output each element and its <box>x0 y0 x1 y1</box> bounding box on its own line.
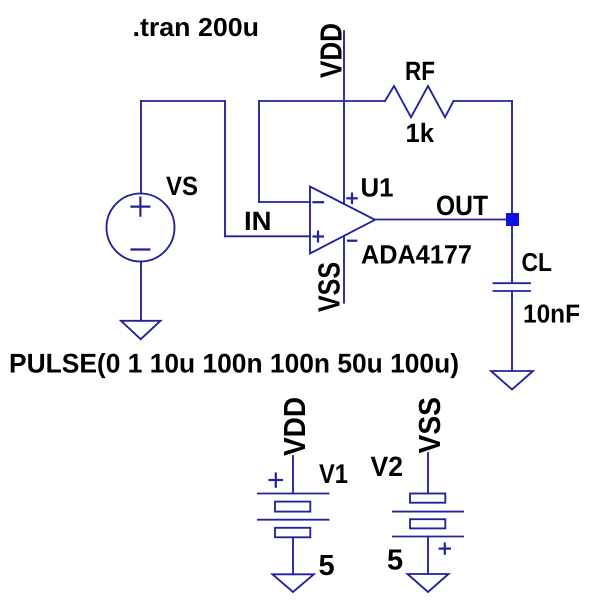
battery V1 plus sign <box>270 474 283 487</box>
svg-text:VSS: VSS <box>313 262 347 312</box>
wire IN horizontal to op-amp +in <box>225 235 310 237</box>
battery V1 bottom wire <box>292 537 294 574</box>
svg-text:PULSE(0 1 10u 100n 100n 50u 10: PULSE(0 1 10u 100n 100n 50u 100u) <box>9 349 459 379</box>
VS plus sign <box>132 198 150 216</box>
battery V2 top wire <box>427 453 429 494</box>
wire VSS pin <box>343 236 345 303</box>
ground V1 <box>273 574 314 592</box>
capacitor CL <box>494 282 531 284</box>
ground CL <box>491 371 533 390</box>
VS minus sign <box>132 248 150 250</box>
svg-text:IN: IN <box>244 206 272 236</box>
svg-text:1k: 1k <box>406 118 435 148</box>
svg-text:VS: VS <box>166 171 198 201</box>
resistor RF <box>385 86 454 117</box>
wire feedback horizontal to op-amp -in <box>259 201 310 203</box>
op-amp inverting input minus <box>314 201 324 203</box>
ground V2 <box>408 574 449 592</box>
svg-text:5: 5 <box>387 545 403 577</box>
battery V2 plus sign <box>440 544 450 554</box>
wire top horizontal VS to corner <box>141 100 225 102</box>
svg-text:VDD: VDD <box>315 23 349 78</box>
wire CL bottom to ground <box>511 291 513 371</box>
svg-text:5: 5 <box>319 550 335 582</box>
op-amp V- pin minus sign <box>348 240 356 242</box>
svg-text:ADA4177: ADA4177 <box>361 240 472 270</box>
wire output vertical down <box>511 101 513 220</box>
svg-text:CL: CL <box>522 247 553 277</box>
voltage source VS circle <box>107 194 175 262</box>
wire VDD rail <box>343 31 345 204</box>
svg-text:OUT: OUT <box>436 190 488 221</box>
svg-text:RF: RF <box>405 56 435 86</box>
wire feedback vertical <box>258 101 260 202</box>
wire VS bottom to ground <box>140 262 142 321</box>
svg-text:V1: V1 <box>319 459 348 489</box>
wire feedback top horizontal to RF <box>259 100 385 102</box>
svg-text:U1: U1 <box>361 173 394 203</box>
ground VS <box>121 321 161 339</box>
svg-text:VDD: VDD <box>278 397 312 456</box>
battery V1 top wire <box>292 456 294 494</box>
battery V1 plates <box>258 493 329 495</box>
svg-text:10nF: 10nF <box>523 299 580 329</box>
wire OUT node down to CL <box>511 220 513 284</box>
node OUT junction square <box>506 213 519 226</box>
op-amp U1 triangle <box>310 187 375 254</box>
op-amp non-inverting input plus <box>314 232 324 242</box>
op-amp V+ pin plus sign <box>347 194 356 203</box>
wire IN vertical <box>224 101 226 236</box>
battery V2 bottom wire <box>427 537 429 575</box>
svg-text:.tran 200u: .tran 200u <box>133 12 260 42</box>
svg-text:V2: V2 <box>371 451 404 482</box>
svg-text:VSS: VSS <box>413 397 447 454</box>
wire op-amp output to OUT node <box>375 219 512 221</box>
battery V2 plates <box>410 494 445 503</box>
wire VS top vertical <box>140 101 142 194</box>
wire RF right to output node <box>454 100 513 102</box>
